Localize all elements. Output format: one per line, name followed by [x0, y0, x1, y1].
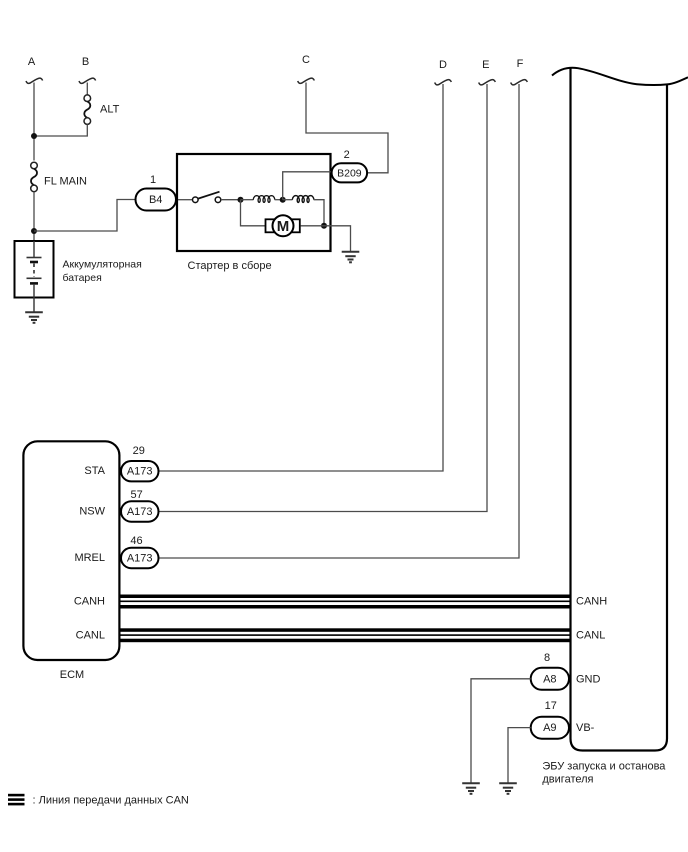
wire C to B209 — [306, 83, 388, 173]
wire coil1 to node2 — [275, 199, 283, 201]
motor brush left — [266, 219, 275, 232]
junction node solenoid left — [238, 197, 244, 203]
pin CANL label left — [76, 629, 105, 641]
pull-in coil — [253, 196, 275, 203]
connector C break symbol — [298, 78, 315, 83]
pin MREL label — [74, 552, 105, 564]
svg-text:A173: A173 — [127, 553, 153, 565]
svg-text:A8: A8 — [543, 673, 556, 685]
wire D to STA — [159, 84, 444, 471]
connector A break symbol — [26, 78, 43, 83]
svg-text:VB-: VB- — [576, 722, 595, 734]
battery cell symbol — [27, 241, 42, 312]
pin CANH label left — [74, 596, 105, 608]
svg-text:8: 8 — [544, 652, 550, 664]
svg-text:ECM: ECM — [60, 669, 84, 681]
svg-text:M: M — [277, 218, 290, 235]
connector B break symbol — [79, 78, 96, 83]
motor M1 — [273, 215, 294, 236]
wire node2 to coil2 — [283, 199, 293, 201]
wire A8 to ground — [471, 679, 531, 783]
svg-text:A: A — [28, 56, 36, 68]
svg-text:: Линия передачи данных CAN: : Линия передачи данных CAN — [33, 795, 189, 807]
connector E label — [482, 59, 489, 71]
label FL MAIN — [44, 176, 87, 188]
svg-text:E: E — [482, 59, 489, 71]
ground ECU A9 — [499, 783, 517, 794]
junction node A/B — [31, 133, 37, 139]
svg-text:двигателя: двигателя — [542, 774, 593, 786]
wire A vertical — [33, 83, 35, 161]
fusible link FL MAIN — [31, 162, 38, 192]
ground ECU A8 — [462, 783, 480, 794]
junction node battery — [31, 228, 37, 234]
pin 57 label — [130, 489, 142, 501]
svg-text:ALT: ALT — [100, 104, 120, 116]
pin 8 label — [544, 652, 550, 664]
svg-text:46: 46 — [130, 535, 142, 547]
ground battery — [25, 312, 43, 323]
svg-text:57: 57 — [130, 489, 142, 501]
wire coil2 to right drop — [314, 200, 324, 226]
wire node2 up to B209 — [283, 172, 332, 200]
pin 46 label — [130, 535, 142, 547]
svg-text:F: F — [517, 58, 524, 70]
connector D label — [439, 59, 447, 71]
start-stop ECU box — [552, 68, 688, 751]
svg-text:NSW: NSW — [79, 506, 105, 518]
svg-text:17: 17 — [545, 700, 557, 712]
svg-text:CANH: CANH — [576, 596, 607, 608]
connector A173 pin57 — [121, 501, 159, 521]
legend text — [33, 795, 189, 807]
label battery — [63, 259, 142, 285]
ECM box — [23, 441, 119, 660]
connector C label — [302, 54, 310, 66]
pin CANH label right — [576, 596, 607, 608]
svg-text:Аккумуляторная: Аккумуляторная — [63, 259, 142, 271]
connector A9 — [531, 717, 569, 739]
label start-stop ECU — [542, 761, 666, 786]
wire A to battery junction — [33, 192, 35, 241]
label ECM — [60, 669, 84, 681]
junction node motor right — [321, 223, 327, 229]
svg-text:Стартер в сборе: Стартер в сборе — [188, 260, 272, 272]
svg-text:A173: A173 — [127, 506, 153, 518]
connector B209 — [332, 163, 368, 182]
starter assembly box — [177, 154, 331, 251]
connector F break symbol — [511, 80, 528, 85]
wire B4 to switch — [178, 199, 193, 201]
wire B lower + horizontal to node — [34, 124, 87, 136]
wire battery junction to B4 — [34, 200, 136, 232]
connector E break symbol — [479, 80, 496, 85]
wire motor to ground — [301, 226, 351, 252]
svg-text:CANL: CANL — [576, 629, 605, 641]
wire F to MREL — [159, 84, 520, 558]
wire A9 to ground — [508, 728, 531, 783]
svg-text:батарея: батарея — [63, 272, 102, 284]
svg-text:GND: GND — [576, 673, 601, 685]
svg-text:FL MAIN: FL MAIN — [44, 176, 87, 188]
label Starter assembly — [188, 260, 272, 272]
svg-text:STA: STA — [84, 465, 105, 477]
fusible link ALT — [84, 95, 91, 125]
connector D break symbol — [435, 80, 452, 85]
svg-text:MREL: MREL — [74, 552, 105, 564]
switch contact right — [215, 197, 221, 203]
connector A173 pin29 — [121, 461, 159, 481]
wire B vertical to ALT — [86, 83, 88, 96]
wire switch to node1 — [221, 199, 241, 201]
wire E to NSW — [159, 84, 488, 512]
label ALT — [100, 104, 120, 116]
connector F label — [517, 58, 524, 70]
svg-text:D: D — [439, 59, 447, 71]
legend CAN line symbol — [8, 794, 25, 806]
pin CANL label right — [576, 629, 605, 641]
svg-text:A9: A9 — [543, 722, 556, 734]
svg-text:1: 1 — [150, 174, 156, 186]
pin STA label — [84, 465, 105, 477]
wire node1 to coil1 — [241, 199, 254, 201]
pin 1 label — [150, 174, 156, 186]
pin 2 label — [344, 149, 350, 161]
pin NSW label — [79, 506, 105, 518]
connector A173 pin46 — [121, 548, 159, 568]
svg-text:A173: A173 — [127, 466, 153, 478]
svg-text:ЭБУ запуска и останова: ЭБУ запуска и останова — [542, 761, 666, 773]
hold-in coil — [292, 196, 314, 203]
ground starter — [342, 252, 360, 262]
connector A8 — [531, 668, 569, 690]
motor brush right — [292, 219, 300, 232]
svg-text:CANL: CANL — [76, 629, 105, 641]
connector A label — [28, 56, 36, 68]
connector B4 — [136, 189, 177, 211]
svg-text:CANH: CANH — [74, 596, 105, 608]
pin GND label — [576, 673, 601, 685]
switch contact left — [193, 197, 199, 203]
switch blade — [198, 192, 219, 199]
connector B label — [82, 56, 89, 68]
junction node between coils — [280, 197, 286, 203]
pin 17 label — [545, 700, 557, 712]
CANL bus wire — [121, 628, 571, 642]
svg-text:2: 2 — [344, 149, 350, 161]
svg-text:29: 29 — [133, 445, 145, 457]
battery box — [15, 241, 54, 298]
CANH bus wire — [121, 595, 571, 609]
svg-text:B: B — [82, 56, 89, 68]
svg-text:C: C — [302, 54, 310, 66]
wire node1 down to motor — [241, 200, 266, 226]
svg-text:B209: B209 — [337, 167, 362, 179]
pin VB- label — [576, 722, 595, 734]
svg-text:B4: B4 — [149, 194, 162, 206]
pin 29 label — [133, 445, 145, 457]
